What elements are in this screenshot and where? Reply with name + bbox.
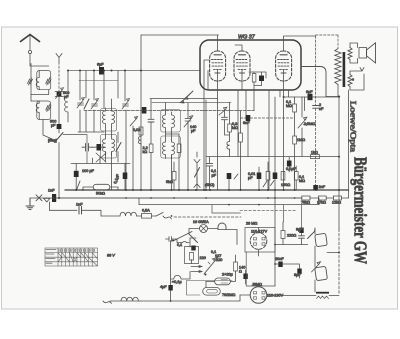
resistor 0.1M <box>293 104 297 112</box>
tube socket 1 (top view) <box>250 233 267 250</box>
small value labels <box>48 63 354 298</box>
scale lamp bump <box>171 272 190 280</box>
wire x118 <box>117 71 119 99</box>
output transformer core <box>343 52 346 87</box>
wire screen line y97 <box>284 96 339 98</box>
svg-text:16 05/EA: 16 05/EA <box>193 220 209 224</box>
shield box 2 <box>37 101 51 120</box>
switch S mains (cross contact) <box>36 195 42 201</box>
resistor UB (outline) <box>234 262 238 271</box>
wire OT bottom lead <box>337 85 339 97</box>
selector arrow 2 <box>191 271 202 273</box>
resistor diag <box>195 168 200 178</box>
capacitor 50pF (block) <box>227 173 232 179</box>
diode detector arrow <box>219 107 227 115</box>
svg-text:1nF: 1nF <box>48 189 55 193</box>
resistor R diag <box>46 78 51 86</box>
capacitor coupling (block) <box>259 76 264 82</box>
wire x283.6 below tube <box>283 90 285 190</box>
wire y163.5 <box>71 163 130 165</box>
svg-text:17kΩ: 17kΩ <box>317 201 326 205</box>
resistor zigzag hum <box>317 296 329 299</box>
wire bottom heater line <box>110 295 240 301</box>
capacitor 6uF (block on bus) <box>99 67 104 75</box>
electrolytic 2x20uF can <box>215 278 231 285</box>
wire switch drop <box>49 202 51 210</box>
tube V2 anode <box>238 54 245 56</box>
svg-text:kΩ: kΩ <box>143 150 148 154</box>
wire dashed y217 <box>174 216 241 218</box>
svg-text:µF: µF <box>248 176 253 180</box>
capacitor 0.1uF (bars) <box>206 163 212 166</box>
wire <box>294 144 296 190</box>
osc can outline 1 <box>161 110 181 133</box>
resistor 78k boxed <box>302 196 310 200</box>
wire x125 <box>124 71 126 102</box>
wire <box>83 187 118 190</box>
coil HF choke <box>227 140 230 151</box>
wire <box>288 157 290 172</box>
phone jack contacts <box>194 152 200 188</box>
wire y79 link <box>79 80 118 82</box>
potentiometer 2.5M arrow <box>298 117 307 128</box>
svg-text:26 MΩ: 26 MΩ <box>246 222 257 226</box>
capacitor mains filter <box>166 237 178 242</box>
wire can bottom <box>78 131 104 133</box>
wire lamp drop <box>190 238 196 247</box>
wire line y216 <box>101 215 120 217</box>
field coil choke 1 <box>315 233 328 246</box>
svg-text:0,1µF: 0,1µF <box>286 167 296 171</box>
wire continuation squiggle <box>163 216 172 219</box>
voltage selector box <box>185 247 199 264</box>
resistor diag <box>116 143 121 152</box>
capacitor (block) <box>97 144 102 151</box>
switch lamp arm <box>189 234 198 243</box>
svg-text:[Ska]: [Ska] <box>48 139 57 143</box>
svg-text:220: 220 <box>200 256 206 260</box>
svg-text:2,5MΩ: 2,5MΩ <box>304 122 315 126</box>
tube socket 2 (rectifier) <box>250 287 267 304</box>
wire y244.5 <box>275 244 307 246</box>
fuse 0.5A <box>137 214 157 219</box>
wire AVC dashed y110.6 <box>84 110 254 112</box>
wire x94 <box>93 71 95 101</box>
svg-text:nF: nF <box>319 107 324 111</box>
wire <box>315 108 317 185</box>
switch contact <box>156 213 163 217</box>
wire box x141 <box>140 35 142 190</box>
wire bus y204.6 <box>139 204 319 206</box>
variable capacitor 140pF <box>184 103 193 127</box>
voltage table <box>45 248 98 266</box>
resistor 12k boxed <box>333 196 341 200</box>
capacitor 20nF (block) <box>278 262 282 268</box>
svg-text:Ω: Ω <box>239 270 242 274</box>
oscillator coil La <box>163 112 166 132</box>
node <box>172 240 174 242</box>
capacitor 2nF (block) at bus <box>313 185 318 191</box>
svg-text:MΩ: MΩ <box>232 126 238 130</box>
svg-text:MΩ: MΩ <box>299 179 305 183</box>
wire rail x59 lower <box>58 143 60 199</box>
node antenna terminal <box>28 50 31 53</box>
svg-text:110-130V: 110-130V <box>267 294 284 298</box>
tube V2 (IF amp) envelope <box>234 51 250 81</box>
IF can outline 1 <box>101 109 117 132</box>
svg-text:20nF: 20nF <box>275 257 284 261</box>
svg-text:150Ω: 150Ω <box>281 183 290 187</box>
wire <box>82 210 102 216</box>
tube V1 electrodes <box>212 60 224 70</box>
svg-text:100 µF: 100 µF <box>82 169 95 173</box>
tuning gang arrows <box>180 91 193 103</box>
svg-text:0,1: 0,1 <box>177 243 182 247</box>
choke heater <box>121 297 138 301</box>
capacitor chassis bar <box>316 292 329 294</box>
wire x218 <box>217 90 219 190</box>
wire <box>58 97 60 125</box>
wire x248 <box>247 121 249 157</box>
resistor 1M vertical <box>293 136 297 144</box>
resistor 50k (stadium) <box>93 184 110 190</box>
capacitor 5nF (block) <box>246 115 251 121</box>
resistor ballast <box>190 253 194 261</box>
antenna coupling network top wire <box>31 64 49 67</box>
resistor diag <box>84 99 89 109</box>
svg-text:8µF: 8µF <box>294 273 301 277</box>
capacitor coupling <box>148 119 154 122</box>
wire x104 <box>104 71 112 109</box>
wire dashed y34 to transformer <box>316 35 338 48</box>
IF can outline 2 <box>101 135 117 159</box>
main bus HT y190 <box>65 189 349 191</box>
capacitor 1nF (block) <box>52 194 56 202</box>
coil L2 <box>36 101 39 120</box>
wire <box>196 177 198 190</box>
capacitor 0.01uF (block) <box>257 173 262 180</box>
osc can outline 2 <box>161 136 181 158</box>
svg-text:78kΩ: 78kΩ <box>301 201 310 205</box>
svg-text:1MΩ: 1MΩ <box>297 138 305 142</box>
wire x288 <box>288 90 290 97</box>
wire x275 <box>274 97 276 243</box>
tube V3 electrodes <box>278 60 290 70</box>
capacitor (block on x141 line) <box>142 107 147 114</box>
wire x339 B+ rail <box>338 97 340 190</box>
wire osc links <box>166 103 172 190</box>
wire <box>231 255 236 281</box>
wire rail x59 <box>58 62 60 91</box>
svg-text:pF: pF <box>51 124 56 128</box>
svg-text:220Ω: 220Ω <box>287 234 296 238</box>
wire <box>267 162 269 190</box>
wire squiggle <box>103 301 112 303</box>
svg-text:4µF: 4µF <box>160 285 167 289</box>
capacitor 4uF (block) <box>168 285 172 291</box>
wire sec2 terminals <box>350 68 364 91</box>
trimmer capacitor (arrow) <box>77 98 85 109</box>
wire <box>191 260 193 264</box>
wire dashed AVC y118 <box>241 117 295 119</box>
wire <box>150 153 152 191</box>
wire V1 inner grid lead <box>204 60 210 90</box>
capacitor padding <box>82 144 92 152</box>
wire speaker loop <box>350 43 358 63</box>
wire verticals below tubes <box>204 90 280 190</box>
svg-text:MΩ: MΩ <box>286 104 292 108</box>
svg-text:0,5A: 0,5A <box>142 209 150 213</box>
wire x86 <box>85 71 87 99</box>
coil RF input <box>65 97 68 122</box>
wire line y210 <box>50 209 78 211</box>
resistor 220 (outline) <box>281 231 285 239</box>
wire x339 dashed down <box>338 229 340 294</box>
capacitor block 0.1uF <box>123 173 128 180</box>
wire band switch link <box>63 135 87 164</box>
wire x315.6 drop <box>315 36 317 106</box>
svg-text:0,02: 0,02 <box>133 128 140 132</box>
svg-text:(5kΩ): (5kΩ) <box>205 183 215 187</box>
wire x80 low <box>80 110 94 132</box>
wire x206 <box>205 100 207 190</box>
resistor osc grid <box>177 144 181 153</box>
node <box>205 274 207 276</box>
IF transformer T2 secondary <box>112 136 115 156</box>
wire box side <box>246 252 275 286</box>
wire T1-T2 links <box>106 128 112 190</box>
oscillator coil Ld <box>172 139 175 159</box>
resistor 0.02 (vertical) <box>139 127 143 135</box>
ground (mains) <box>26 198 34 210</box>
plug contact <box>44 198 51 202</box>
tube V3 anode <box>280 54 287 56</box>
resistor 5k cathode <box>172 172 176 181</box>
wire x240.5 <box>240 111 242 133</box>
wire <box>177 239 189 243</box>
wire coupling net <box>249 72 266 86</box>
switch on bus <box>77 181 81 190</box>
wire ground to switch <box>30 197 35 199</box>
switch Ska (wave switch) <box>55 133 64 143</box>
wire RF vertical x68 <box>67 71 69 98</box>
resistor 17k boxed <box>318 196 326 200</box>
wire bus y70.5 <box>68 70 200 72</box>
wire y298 <box>283 295 339 297</box>
wire dashed y210.3 <box>240 209 297 211</box>
wire <box>58 129 60 133</box>
wire x302 <box>301 97 303 157</box>
svg-text:2+20µ: 2+20µ <box>222 273 234 277</box>
wire x339 down <box>338 190 340 229</box>
capacitor 100uF (electrolytic block) <box>74 171 79 177</box>
tube V3 leads <box>283 36 285 90</box>
electrolytic can 2 <box>203 288 221 296</box>
wire to wave switch <box>43 125 52 139</box>
wire <box>92 146 106 148</box>
svg-text:1nF: 1nF <box>76 203 83 207</box>
rectifier socket box <box>245 228 275 253</box>
capacitor 0.5uF (block) <box>273 173 278 180</box>
wire x269 <box>268 90 270 190</box>
tube V1 anode <box>214 54 221 56</box>
speaker cone <box>367 43 376 63</box>
dial lamp 2 (bulb) <box>218 223 226 230</box>
wire x304 <box>304 97 306 111</box>
svg-text:WG 37: WG 37 <box>238 35 256 41</box>
tube V1 cathode <box>215 72 220 74</box>
terminal bump <box>183 242 187 243</box>
wire stage2 feed <box>31 100 39 102</box>
svg-text:88 V: 88 V <box>107 254 115 258</box>
IF transformer T1 primary <box>103 108 106 128</box>
wire <box>229 102 231 140</box>
capacitor 8uF (block+plates) <box>299 228 303 234</box>
wire <box>314 228 317 232</box>
wire <box>229 151 231 157</box>
svg-text:pF: pF <box>191 129 196 133</box>
speaker coil box <box>359 48 367 59</box>
svg-text:220: 220 <box>216 258 222 262</box>
power section outer wire x171 <box>170 241 172 302</box>
resistor boxed on y156.6 <box>311 155 320 159</box>
trimmer arrow diag <box>130 117 138 127</box>
wire <box>187 121 189 190</box>
antenna 2 (short) <box>56 54 62 63</box>
wire <box>209 157 211 190</box>
resistor (antenna shunt, diagonal) <box>28 78 33 85</box>
svg-text:µF: µF <box>212 174 217 178</box>
crossing wires <box>96 153 106 162</box>
wire feeds <box>284 205 302 228</box>
tube V2 electrodes <box>236 60 248 70</box>
wire gang line1 <box>150 98 218 100</box>
trimmer capacitor 3 <box>122 99 130 110</box>
wire <box>150 122 152 144</box>
wire selector taps <box>208 255 218 264</box>
choke (mains filter) <box>120 212 137 216</box>
svg-text:50kΩ: 50kΩ <box>96 192 105 196</box>
shield box 1 <box>37 71 51 90</box>
svg-text:1kΩ: 1kΩ <box>311 151 318 155</box>
svg-text:12kΩ: 12kΩ <box>332 201 341 205</box>
capacitor 0.1uF (block) <box>287 161 292 167</box>
svg-text:6µF: 6µF <box>306 90 313 94</box>
wire corner x212 <box>212 205 241 213</box>
IF transformer T1 secondary <box>112 108 115 128</box>
resistor 0.3M <box>228 124 232 132</box>
switch field coil <box>308 232 315 245</box>
oscillator coil Lb <box>172 112 175 132</box>
selector arrow field coil <box>312 262 321 272</box>
dial lamp 1 <box>200 225 208 233</box>
svg-text:≈0,1µ: ≈0,1µ <box>172 280 182 284</box>
wire <box>295 166 297 190</box>
voltage selector lever <box>204 258 217 274</box>
wire V3 top rail y36 <box>284 35 316 37</box>
wire <box>228 179 230 190</box>
wire <box>357 43 359 63</box>
svg-text:J6MΩ: J6MΩ <box>252 283 262 287</box>
resistor R diag 2 <box>46 104 51 112</box>
wire x319 <box>318 198 320 205</box>
wire <box>258 228 260 257</box>
wire x151 <box>150 99 152 119</box>
tube V2 leads <box>235 45 242 90</box>
capacitor 8uF b (block) <box>297 269 301 275</box>
wire x254 big-box corner <box>253 86 255 111</box>
tube V1 (mixer) envelope <box>210 51 226 81</box>
capacitor 8uF (block) <box>243 274 247 280</box>
wire <box>76 157 100 190</box>
tube block box <box>200 40 301 90</box>
resistor coupling V2-V3 <box>252 74 256 83</box>
wire <box>29 54 31 66</box>
svg-text:0,1: 0,1 <box>211 169 216 173</box>
resistor 5k vertical <box>239 133 243 142</box>
capacitor 1nF <box>79 207 82 215</box>
svg-text:8µF: 8µF <box>296 228 303 232</box>
svg-text:9nF: 9nF <box>243 121 250 125</box>
capacitor 2nF tone <box>313 106 319 109</box>
wire socket2 leads <box>240 294 275 296</box>
coil L1 <box>36 71 39 90</box>
wire x348.5 speaker return <box>348 90 350 198</box>
wire <box>275 263 296 265</box>
tube V3 (output) envelope <box>276 51 292 81</box>
resistor 0.1M (outline) <box>294 172 298 181</box>
capacitor NTC (block) <box>191 246 195 251</box>
IF transformer T2 primary <box>103 136 106 156</box>
capacitor 6uF screen (block) <box>308 94 313 100</box>
tube V1 anode/cathode leads <box>217 35 219 90</box>
svg-text:2nF: 2nF <box>319 185 326 189</box>
trimmer capacitor 500pF (block) <box>57 92 62 97</box>
trimmer arrow <box>234 174 238 179</box>
svg-text:76/2MΩ: 76/2MΩ <box>222 293 236 297</box>
wire antenna lead <box>29 35 31 50</box>
capacitor 500pF (block) <box>57 124 62 129</box>
trimmer arrows small <box>263 181 274 188</box>
wire gang line2 <box>152 101 231 103</box>
wire <box>240 142 242 190</box>
svg-text:5kΩ: 5kΩ <box>166 180 173 184</box>
wire <box>166 134 180 190</box>
wire <box>258 167 260 190</box>
speaker secondary 2 <box>348 75 352 87</box>
wire box top y35 <box>141 34 219 36</box>
svg-text:c: c <box>352 78 354 82</box>
svg-text:110-127V: 110-127V <box>251 230 268 234</box>
wire bus y198 resistor chain <box>56 197 349 199</box>
wire x133 <box>132 126 134 190</box>
output transformer T primary <box>335 49 341 85</box>
oscillator coil Lc <box>163 139 166 159</box>
antenna A1 <box>21 35 40 42</box>
wire choke link <box>314 228 316 292</box>
tube V2 cathode <box>240 72 245 74</box>
coil small <box>138 135 141 146</box>
wire x275 <box>274 243 276 286</box>
wire legs stage2 <box>31 95 43 126</box>
wire x118 low <box>117 132 119 162</box>
wire y156.6 <box>206 156 339 158</box>
svg-text:Bürgermeister GW: Bürgermeister GW <box>351 157 371 264</box>
wire lamp leads <box>189 229 237 245</box>
wire <box>206 281 215 287</box>
svg-text:6µF: 6µF <box>97 63 104 67</box>
field coil choke 2 <box>315 266 328 280</box>
